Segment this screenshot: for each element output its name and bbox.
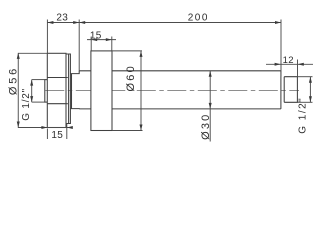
ext lines 15 top xyxy=(90,37,92,52)
arrow 200 left xyxy=(79,21,85,24)
svg-text:12: 12 xyxy=(283,55,294,66)
wire plate interior bottom xyxy=(47,103,68,105)
dim Ø30 vertical xyxy=(209,71,211,142)
svg-text:Ø56: Ø56 xyxy=(8,66,20,95)
node collar xyxy=(66,54,70,124)
ext lines 15 bottom xyxy=(46,129,48,140)
wire groove top xyxy=(70,71,79,74)
centerline xyxy=(45,90,299,92)
wire collar face line xyxy=(68,54,70,124)
arrow Ø60 up xyxy=(140,51,143,57)
bottom line: Ø56 ext + plate bottom + 15 overshoot xyxy=(18,127,73,129)
ext line left of 23 xyxy=(46,20,48,54)
arrow Ø56 down xyxy=(17,122,20,128)
arrow Ø60 down xyxy=(140,125,143,131)
ext G1/2 left top xyxy=(32,79,48,81)
arrow 15 top left xyxy=(91,38,97,41)
dim line 12 right xyxy=(266,63,313,65)
svg-text:G 1/2": G 1/2" xyxy=(21,88,32,121)
arrow 200 right xyxy=(275,21,281,24)
ext Ø60 bottom xyxy=(112,130,143,132)
wire thread relief xyxy=(283,77,285,103)
wire tube bottom xyxy=(79,108,281,110)
svg-text:G 1/2": G 1/2" xyxy=(298,97,309,134)
ext G1/2 right bottom xyxy=(298,101,313,103)
ext Ø60 top xyxy=(112,50,142,52)
svg-text:15: 15 xyxy=(90,30,102,41)
wire G1/2 stub left xyxy=(45,80,48,103)
wire collar inner line xyxy=(71,74,73,109)
svg-text:Ø60: Ø60 xyxy=(125,64,137,91)
arrow G1/2 left down xyxy=(30,96,33,102)
svg-text:Ø30: Ø30 xyxy=(200,112,212,139)
arrow G1/2 right down xyxy=(309,96,312,102)
ext G1/2 left bottom xyxy=(32,101,48,103)
arrow Ø30 down xyxy=(209,103,212,109)
arrow Ø56 up xyxy=(17,53,20,59)
arrow G1/2 left up xyxy=(30,80,33,86)
arrow 23 left xyxy=(47,21,53,24)
arrow G1/2 right up xyxy=(309,77,312,83)
svg-text:200: 200 xyxy=(188,13,209,24)
arrow 23 right xyxy=(73,21,79,24)
svg-text:15: 15 xyxy=(51,130,63,141)
arrow 15 top right xyxy=(106,38,112,41)
dim G1/2 left vertical xyxy=(31,80,33,103)
dim Ø56 vertical xyxy=(17,53,19,128)
ext G1/2 right top xyxy=(298,76,313,78)
arrow 12 right (outside) xyxy=(298,63,304,66)
svg-text:23: 23 xyxy=(56,13,68,24)
wire tube end face xyxy=(280,71,282,109)
ext line right of 200 xyxy=(280,20,282,77)
arrow Ø30 up xyxy=(209,71,212,77)
arrow 12 left (outside) xyxy=(275,63,281,66)
ext line shared 23/200 xyxy=(78,20,80,71)
dim Ø60 vertical xyxy=(140,51,142,130)
arrow 15 bottom right (outside) xyxy=(67,126,73,129)
ext Ø56 top xyxy=(18,52,47,54)
dim G1/2 right vertical xyxy=(309,77,311,103)
wire groove bottom xyxy=(70,108,79,110)
node right thread G1/2 xyxy=(284,77,297,103)
dim line 15 top xyxy=(87,39,116,41)
node escutcheon plate Ø56 xyxy=(47,53,66,127)
node disc Ø60 xyxy=(91,51,112,131)
dim line 23/200 xyxy=(47,22,281,24)
wire tube top xyxy=(79,70,281,72)
wire plate interior top xyxy=(47,77,68,79)
ext line 12 right outer xyxy=(297,60,299,77)
arrow 15 bottom left (outside) xyxy=(41,126,47,129)
